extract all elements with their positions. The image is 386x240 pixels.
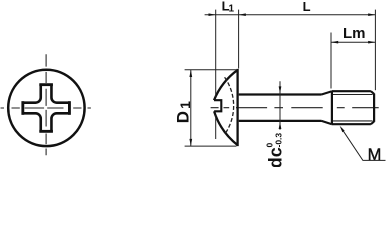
extension line bearing face (L1 right, L left) [238,10,240,69]
recess notch at apex [214,100,221,111]
arrowhead at L1 left [209,13,216,16]
dimension D1 [190,70,192,146]
svg-text:L: L [303,0,311,14]
arrowhead at L right [368,13,375,16]
screw axis centerline [211,107,379,109]
extension line thread start (Lm left) [330,33,332,89]
svg-text:M: M [368,146,382,164]
svg-text:-0.3: -0.3 [274,133,284,148]
thread end face [373,94,375,122]
extension line head apex (L1 left) [215,10,217,97]
arrowhead Lm left [331,41,338,44]
svg-text:dc: dc [266,147,286,167]
cone transition shank to thread [322,91,332,94]
svg-text:Lm: Lm [343,25,366,42]
extension line screw end (L right, Lm right) [374,10,376,91]
dimension line L1 / L [205,14,376,16]
label dc with tolerance (rotated) [265,133,286,169]
recess wing tip bars [23,85,70,132]
arrowhead D1 top [189,70,192,77]
thread end chamfers [371,91,374,94]
leader and label M [342,128,386,160]
arrowhead D1 bottom [189,139,192,146]
hidden recess outline (dashed arc) [225,77,234,134]
arrowhead Lm right [368,41,375,44]
arrowhead dc top (points down to shank top) [279,86,282,93]
head outline circle [8,70,84,146]
extension line head top [185,69,237,71]
extension line head bottom [185,145,237,147]
shank bottom line [239,120,322,122]
leader arrowhead at thread [340,126,345,133]
thread outside diameter lines [332,90,371,92]
vertical centerline of front view [45,54,47,155]
thread start face [331,91,333,124]
arrowhead at L1 right / L left [239,13,246,16]
arrowhead dc bottom (points up to shank bottom) [279,122,282,129]
svg-text:L1: L1 [222,0,235,14]
horizontal centerline of front view [1,107,91,109]
dimension dc [279,81,281,129]
dimension Lm [331,41,375,43]
shank top line [239,93,322,95]
truss head dome arc bottom [214,111,238,145]
thread root thin lines [332,94,373,96]
phillips cross recess outline [23,85,70,132]
truss head dome arc top [214,70,238,100]
head back (bearing) face [236,69,238,146]
svg-text:D1: D1 [174,101,193,123]
label D1 (rotated) [174,101,193,123]
